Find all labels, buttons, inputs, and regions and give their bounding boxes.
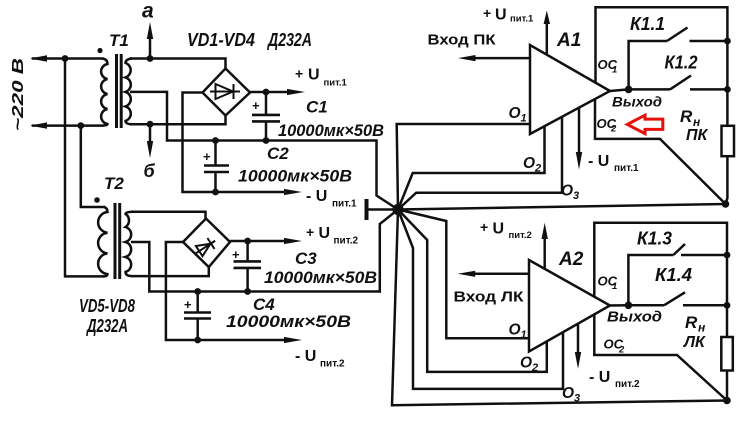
label O1 A2 [509, 322, 527, 342]
svg-text:К1.4: К1.4 [655, 265, 692, 285]
svg-text:2: 2 [610, 124, 617, 135]
junction corner 1 [722, 200, 730, 208]
arrow input Vhod PK [458, 55, 530, 61]
junction C4 top [194, 288, 201, 295]
svg-text:+: + [483, 5, 491, 21]
svg-text:Выход: Выход [607, 309, 662, 326]
node star common [392, 204, 403, 215]
svg-text:1: 1 [521, 329, 527, 341]
svg-text:пит.1: пит.1 [614, 163, 639, 174]
relay contact K1.3 [628, 244, 727, 305]
svg-text:пит.1: пит.1 [332, 199, 357, 210]
svg-text:T1: T1 [109, 31, 129, 50]
svg-text:пит.2: пит.2 [615, 379, 640, 390]
wire T1 primary bottom to T2 primary top [81, 126, 104, 207]
node A2 output [625, 302, 633, 310]
capacitor C2 [204, 141, 229, 193]
wire +U pit2 output [230, 240, 285, 243]
svg-text:R: R [680, 107, 693, 126]
relay contact K1.1 [629, 28, 728, 90]
svg-text:- U: - U [306, 188, 327, 205]
label Rn PK [680, 107, 709, 144]
svg-text:а: а [142, 0, 154, 23]
bridge rectifier VD1-VD4 [203, 69, 251, 116]
svg-text:пит.1: пит.1 [510, 14, 534, 25]
svg-text:1: 1 [612, 281, 617, 292]
wire 0V rail 1 [130, 92, 398, 210]
junction corner 2 [723, 397, 731, 405]
svg-text:К1.2: К1.2 [665, 53, 698, 73]
junction C3 bottom [244, 288, 251, 295]
svg-text:Д232А: Д232А [86, 316, 128, 336]
wire resistor to corner 2 [726, 371, 729, 401]
svg-text:К1.1: К1.1 [630, 14, 665, 34]
wire A1 output to node [610, 89, 629, 91]
svg-text:+: + [184, 297, 192, 312]
svg-text:Вход ПК: Вход ПК [428, 32, 497, 49]
svg-text:10000мк×50В: 10000мк×50В [278, 121, 384, 140]
junction K1.4 right [724, 302, 731, 309]
svg-text:О: О [562, 385, 574, 402]
red arrow marker [627, 115, 663, 133]
svg-text:+: + [480, 219, 488, 235]
svg-text:3: 3 [573, 190, 579, 202]
capacitor C3 [234, 241, 262, 292]
svg-text:+: + [295, 66, 303, 82]
arrowhead mains 1 [30, 55, 47, 61]
label -U pit.2 left [295, 348, 345, 370]
svg-text:+: + [252, 98, 260, 113]
svg-text:ПК: ПК [686, 127, 709, 144]
svg-text:VD1-VD4: VD1-VD4 [187, 30, 255, 50]
svg-text:10000мк×50В: 10000мк×50В [264, 268, 377, 287]
wire T2 secondary bottom to bridge [131, 267, 209, 276]
svg-text:б: б [144, 161, 156, 181]
wire 0V rail 2 [131, 210, 398, 292]
svg-text:О: О [523, 155, 535, 172]
wire OC2 feedback of A2 [594, 314, 727, 400]
op-amp A2 [529, 260, 610, 352]
label O2 A2 [520, 355, 538, 375]
capacitor C4 [184, 292, 211, 341]
svg-text:С3: С3 [295, 249, 317, 268]
svg-text:О: О [520, 355, 532, 372]
wire T2 secondary top to bridge [131, 212, 206, 219]
arrow -U pit.1 of A1 [576, 108, 582, 170]
wire OC1 feedback top rail 1 [596, 7, 728, 126]
label O3 A2 [562, 385, 580, 405]
wire T1 secondary bottom to bridge [130, 116, 226, 125]
svg-text:пит.2: пит.2 [509, 230, 532, 241]
wire O3 of A2 [398, 210, 563, 389]
label +U pit.2 left [306, 224, 358, 247]
svg-text:пит.2: пит.2 [334, 236, 359, 247]
wire mains vertical to T2 primary bottom [65, 59, 103, 277]
svg-text:10000мк×50В: 10000мк×50В [226, 312, 351, 331]
junction K1.2 right [724, 86, 731, 93]
terminal bar common [365, 199, 369, 220]
wire OC2 feedback of A1 [595, 99, 726, 204]
bridge rectifier VD5-VD8 [183, 219, 230, 268]
svg-text:Вход ЛК: Вход ЛК [454, 289, 525, 306]
svg-text:3: 3 [574, 393, 580, 405]
label OC2 A2 [604, 337, 626, 356]
wire resistor to corner 1 [726, 156, 728, 204]
junction C1 top [263, 89, 270, 96]
junction C2 top [212, 137, 219, 144]
label +U pit.2 A2 [480, 219, 532, 241]
svg-text:А2: А2 [558, 249, 584, 270]
node b arrow [147, 121, 154, 158]
wire star to load bottom 2 [392, 210, 727, 406]
arrowhead mains 2 [30, 122, 47, 128]
svg-text:+: + [306, 224, 314, 240]
wire -U pit1 rail [183, 93, 286, 193]
svg-text:- U: - U [589, 369, 610, 386]
wire O1 of A1 [397, 124, 530, 210]
label O2 A1 [523, 155, 541, 175]
svg-text:О: О [509, 322, 521, 339]
wire star to load bottom 1 [398, 204, 726, 210]
svg-text:+: + [203, 149, 211, 164]
junction C3 top [244, 238, 251, 245]
arrowhead +U pit2 [284, 238, 302, 244]
arrow -U pit.2 of A2 [575, 324, 581, 369]
arrowhead -U pit1 [284, 189, 302, 195]
arrowhead -U pit2 [284, 337, 302, 343]
svg-text:~220 В: ~220 В [10, 58, 27, 131]
svg-text:н: н [698, 321, 706, 335]
svg-text:А1: А1 [556, 30, 581, 51]
svg-text:VD5-VD8: VD5-VD8 [79, 296, 135, 316]
junction mains 1 [62, 55, 69, 62]
label O3 A1 [561, 183, 579, 203]
dot T2 polarity [94, 197, 100, 203]
wire mains line 2 [33, 124, 102, 127]
junction C4 bottom [194, 337, 201, 344]
junction mains 2 [77, 122, 84, 129]
wire O2 of A2 [398, 210, 547, 372]
svg-text:U: U [308, 67, 320, 84]
svg-text:- U: - U [295, 348, 316, 365]
svg-text:R: R [685, 313, 698, 332]
op-amp A1 [530, 45, 610, 134]
node A1 output [625, 86, 633, 94]
label -U pit.2 A2 [589, 369, 640, 390]
wire mains line 1 [33, 57, 102, 60]
label Rn LK [683, 313, 706, 351]
label -U pit.1 A1 [588, 153, 639, 174]
label +U pit.1 A1 [483, 5, 534, 25]
wire +U pit1 output [250, 91, 288, 94]
wire O1 of A2 [398, 210, 529, 339]
capacitor C1 [252, 92, 280, 141]
label -U pit.1 left [306, 188, 357, 210]
wire A2 output to node [610, 304, 628, 307]
label OC1 A1 [598, 57, 618, 76]
wire O2 of A1 [398, 126, 545, 209]
svg-text:Д232А: Д232А [266, 30, 312, 50]
svg-text:Выход: Выход [612, 94, 662, 110]
label OC2 A1 [597, 116, 618, 135]
transformer T2 [98, 203, 132, 279]
transformer T1 [101, 54, 132, 128]
label OC1 A2 [598, 274, 618, 293]
relay contact K1.2 [629, 76, 728, 90]
resistor Rn LK [721, 337, 733, 371]
wire OC1 feedback top rail 2 [594, 223, 727, 337]
svg-text:2: 2 [531, 362, 538, 374]
svg-text:T2: T2 [104, 174, 124, 193]
label +U pit.1 left [295, 66, 348, 89]
svg-text:пит.1: пит.1 [324, 78, 348, 89]
arrow input Vhod LK [458, 271, 529, 277]
svg-text:2: 2 [534, 163, 541, 175]
svg-text:- U: - U [588, 153, 609, 170]
svg-text:U: U [493, 221, 505, 238]
node a arrow [147, 22, 154, 62]
wire O3 of A1 [398, 117, 562, 210]
label O1 A1 [509, 105, 527, 125]
svg-text:1: 1 [612, 65, 617, 76]
svg-text:К1.3: К1.3 [637, 229, 672, 249]
wire star to terminal bar [368, 208, 398, 211]
arrowhead +U pit1 [287, 89, 305, 95]
arrow +U pit.2 of A2 [542, 223, 548, 269]
dot T1 polarity [97, 48, 102, 53]
junction C2 bottom [212, 189, 219, 196]
wire T1 secondary top to bridge [130, 59, 226, 69]
svg-text:U: U [319, 225, 331, 242]
svg-text:U: U [495, 7, 507, 24]
svg-text:О: О [561, 183, 573, 200]
junction C1 bottom [263, 137, 270, 144]
svg-text:+: + [232, 247, 240, 262]
svg-text:С2: С2 [267, 144, 289, 163]
wire -U pit2 rail [166, 242, 285, 340]
arrow +U pit.1 of A1 [544, 11, 550, 55]
resistor Rn PK [722, 126, 735, 156]
svg-text:ЛК: ЛК [683, 334, 706, 351]
relay contact K1.4 [628, 292, 727, 305]
svg-text:1: 1 [521, 113, 527, 125]
svg-text:10000мк×50В: 10000мк×50В [238, 167, 352, 186]
svg-text:пит.2: пит.2 [320, 359, 345, 370]
junction K1.1 right [724, 38, 731, 45]
svg-text:С1: С1 [306, 98, 328, 117]
junction K1.3 right [724, 252, 731, 259]
svg-text:О: О [509, 105, 521, 122]
